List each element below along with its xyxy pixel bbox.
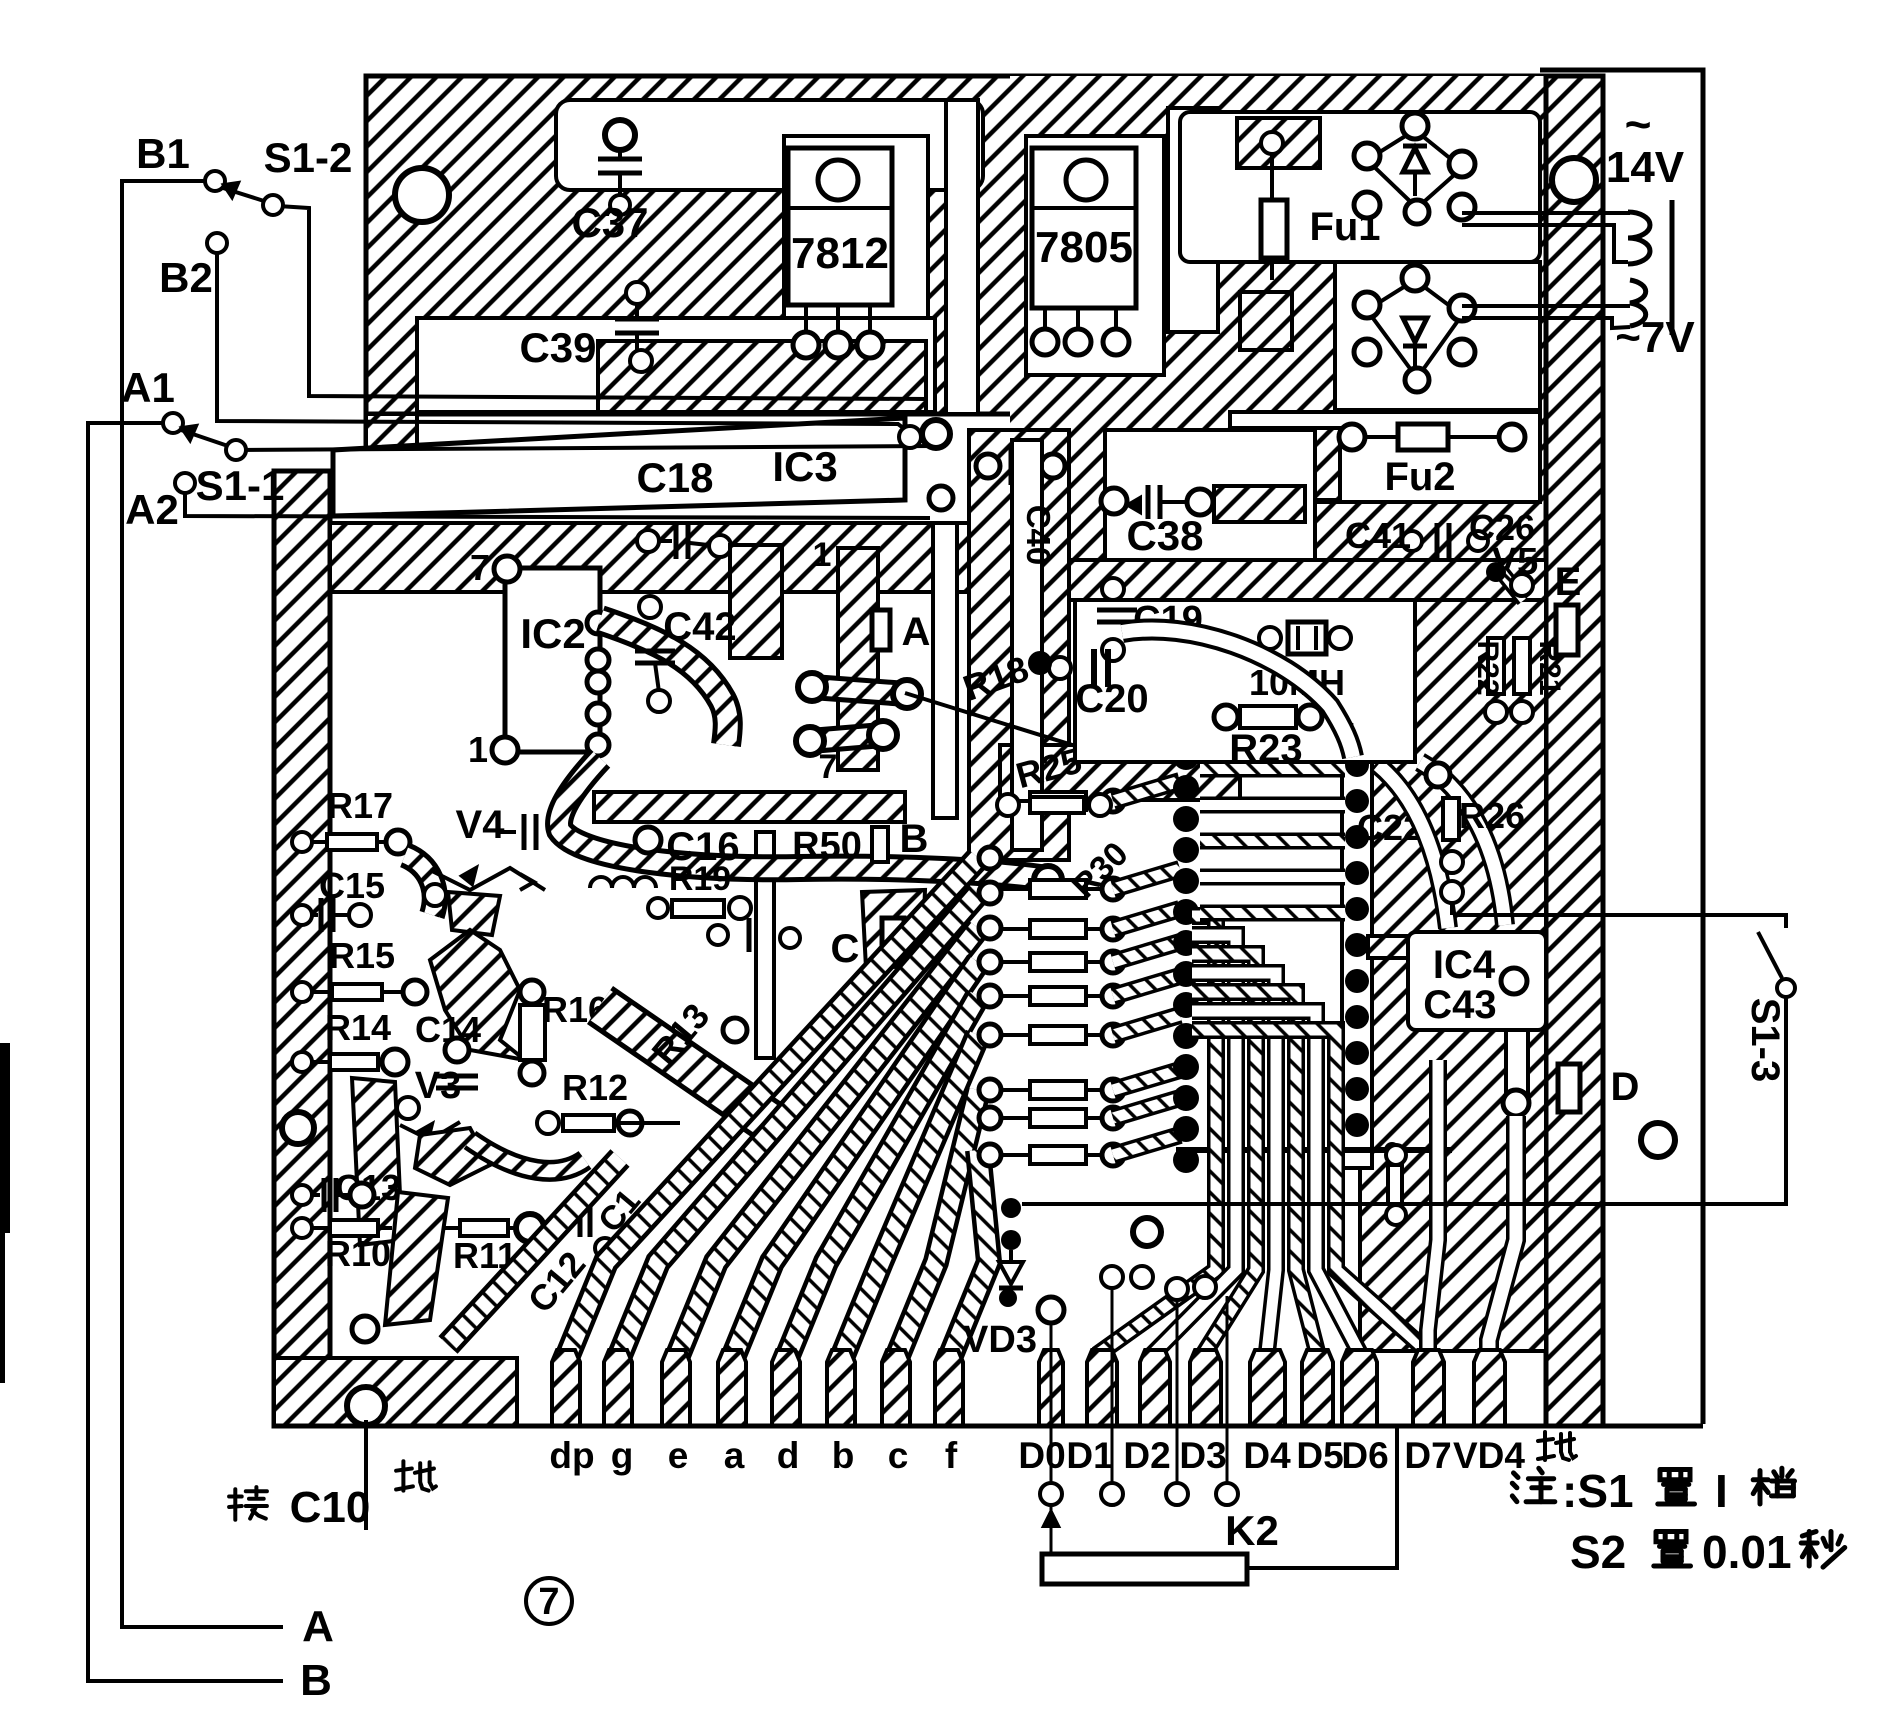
crystal 10MH [1288,622,1326,654]
wire S1-3 bottom [1022,997,1786,1204]
connector finger 6 [882,1350,910,1426]
scan artifact bar [0,1043,10,1233]
pad fan [979,882,1001,904]
label jie C10 [229,1487,267,1520]
capacitor C41 [1402,531,1422,551]
copper blob V3 [415,1128,490,1185]
svg-text:C43: C43 [1423,983,1496,1027]
connector finger 0 [552,1350,580,1426]
curved copper loop C16 [559,758,1040,878]
white channels right of C22 [1378,765,1448,928]
connector finger D [1474,1350,1505,1426]
wire A1 into board [88,421,155,425]
svg-text:dp: dp [549,1435,594,1476]
trace channel under R50 [756,832,774,1058]
copper strip left of A marker [838,548,878,770]
white region C19/C20 [1075,600,1415,762]
white region Fu2 [1230,412,1540,502]
svg-text:b: b [832,1435,855,1476]
trace channel C38 white region [1105,430,1315,560]
svg-text:B: B [900,817,929,861]
pad slot D [1558,1064,1580,1112]
svg-text:IC3: IC3 [772,443,837,490]
IC2 pad [587,734,609,756]
svg-text:C10: C10 [290,1483,371,1532]
switch S1-2 [205,171,225,191]
pad fan [979,847,1001,869]
copper pour center column [969,430,1069,860]
wire S1-3 top [1456,915,1786,928]
connector finger D [1342,1350,1377,1426]
svg-text:B1: B1 [136,130,190,177]
svg-text:f: f [945,1435,958,1476]
regulator region 7812 white [784,136,928,375]
svg-text:IC2: IC2 [520,610,585,657]
svg-text:D2: D2 [1123,1435,1170,1476]
svg-text:D7: D7 [1404,1435,1451,1476]
diode VD3 [1001,1198,1021,1218]
svg-text:R15: R15 [329,935,395,976]
trace fan strip 2 [676,928,978,1360]
copper star blob [430,930,525,1060]
svg-text:C: C [831,927,860,971]
copper pour left border band [274,471,330,1426]
svg-text:D3: D3 [1179,1435,1226,1476]
capacitor C37 [605,120,635,150]
connector finger D [1190,1350,1221,1426]
svg-text:A: A [902,610,931,654]
pad pair upper right of IC2 [812,687,907,694]
resistor R10 [292,1218,312,1238]
copper blob below V3 [385,1192,448,1325]
svg-text:C38: C38 [1126,512,1203,559]
copper blob C15 arc [405,855,435,915]
svg-text:D0: D0 [1018,1435,1065,1476]
svg-text:~7V: ~7V [1615,313,1695,362]
capacitor C16 symbol [500,830,516,834]
copper island left of bridge 2 [1240,292,1292,350]
svg-text:R17: R17 [327,785,393,826]
switch K2 slider [1050,1505,1053,1554]
svg-text:S1-2: S1-2 [264,134,353,181]
svg-text:g: g [611,1435,634,1476]
resistor R23 [1240,706,1296,728]
IC3 trace strip [333,418,905,516]
connector finger D [1087,1350,1117,1426]
copper band under IC2 [594,792,905,822]
pad fan [979,951,1001,973]
svg-text:C18: C18 [636,454,713,501]
pad 7812 pin1 [793,332,819,358]
trace channel C37 [556,100,983,190]
copper strip right of C38 [1214,486,1305,522]
svg-text:C40: C40 [1020,505,1057,566]
svg-text:R14: R14 [325,1007,391,1048]
figure number 7 [526,1578,572,1624]
bridge rectifier VD1 diamond [1367,130,1462,208]
connector finger D [1140,1350,1170,1426]
diode symbol in bridge 2 [1403,318,1427,342]
pad pair lower right of IC2 [810,735,883,741]
svg-text:V4: V4 [456,803,506,847]
trace to pad below IC4 [1506,1030,1528,1095]
IC2 pad [587,612,609,634]
connector finger 3 [718,1350,746,1426]
PCB board outline [274,76,1603,1426]
pad K2 [1166,1483,1188,1505]
connector finger 7 [935,1350,963,1426]
copper pour left column stub [366,414,417,471]
copper strip right of C42 [730,545,782,658]
copper band R13 [600,1005,770,1122]
copper blob V4 [448,892,500,935]
capacitor C18 symbol [637,530,659,552]
white region bridge rectifier 2 [1335,262,1540,410]
trace channel right of 7805 [1168,108,1218,332]
svg-text:C39: C39 [519,324,596,371]
copper blob C marker [862,890,925,968]
pad fan [979,985,1001,1007]
IC2 pad pin1 [492,737,518,763]
connector finger D [1250,1350,1285,1426]
trace fan strip 7 [949,1150,989,1360]
note S1 [1512,1468,1555,1501]
svg-text:R26: R26 [1459,795,1525,836]
svg-text:R19: R19 [669,860,731,898]
svg-text:0.01: 0.01 [1702,1526,1792,1578]
svg-text:C15: C15 [319,865,385,906]
wire across [1176,1147,1452,1153]
svg-text:e: e [668,1435,689,1476]
svg-text:D6: D6 [1341,1435,1388,1476]
svg-text:R10: R10 [325,1233,391,1274]
resistor row bodies center [1001,799,1030,803]
pad IC1 outer [1102,1079,1124,1101]
svg-text:c: c [888,1435,909,1476]
capacitor C19 [1102,578,1124,600]
copper pour right border band [1546,76,1603,1426]
white region Fu1 / bridge rectifier 1 [1180,112,1540,262]
mounting hole right [1641,1123,1675,1157]
label ground left [396,1461,436,1490]
capacitor C42 [639,596,661,618]
copper pour band below IC3 [330,523,1005,592]
svg-text:1: 1 [468,729,488,770]
pad IC1 outer [1102,985,1124,1007]
pad node top-center [922,420,950,448]
capacitor C38 [1101,488,1127,514]
mounting hole top-left [395,168,449,222]
resistor R21 R22 [1488,638,1504,694]
IC2 pad [587,649,609,671]
copper pour mid horizontal band [1069,560,1546,600]
pad 7805 pin2 [1065,329,1091,355]
connector finger D [1039,1350,1063,1426]
board bottom edge [274,1424,1703,1429]
svg-text:A: A [302,1602,334,1651]
resistor R14 [292,1052,312,1072]
IC2 pad [587,703,609,725]
copper pour top-right block [1010,76,1546,560]
svg-text:14V: 14V [1606,143,1685,192]
svg-text:K2: K2 [1225,1507,1279,1554]
pad ground bottom-left [352,1316,378,1342]
connector finger 2 [662,1350,690,1426]
resistor R11 [422,1218,442,1238]
mounting hole top-right [1552,158,1596,202]
svg-text:R12: R12 [562,1067,628,1108]
pad fan [979,917,1001,939]
connector finger 5 [827,1350,855,1426]
svg-text:IC4: IC4 [1433,943,1496,987]
pad K2 [1216,1483,1238,1505]
transformer secondary coil 14V [1462,213,1630,262]
pad 7812 pin2 [825,332,851,358]
pad IC1 outer [1102,1107,1124,1129]
wire B1 into board [278,206,928,399]
svg-text:A2: A2 [125,486,179,533]
connector finger 4 [772,1350,800,1426]
trace fan strip 1 [618,893,978,1360]
trace channel C22 [1342,752,1372,1168]
pad IC1 outer [1102,878,1124,900]
resistor R17 [292,832,312,852]
regulator region 7805 white [1026,136,1164,375]
svg-text:D5: D5 [1296,1435,1343,1476]
pad fan [979,1024,1001,1046]
svg-text:C20: C20 [1075,677,1148,721]
pad fan [979,1107,1001,1129]
resistor R50 [872,827,888,862]
IC4 white region [1408,932,1546,1030]
svg-text:B2: B2 [159,254,213,301]
pad 7805 pin3 [1103,329,1129,355]
fuse Fu1 [1261,132,1283,154]
curved copper trace from IC2 [600,620,728,745]
inductor L [590,877,656,888]
fuse Fu2 [1339,424,1365,450]
trace channel vertical top-center [946,100,978,414]
IC2 pad pin7 [494,556,520,582]
svg-text:S1-3: S1-3 [1743,998,1787,1083]
pads bottom center [1038,1297,1064,1323]
pad IC1 outer [1102,1024,1124,1046]
pad IC1 outer [1102,790,1124,812]
transformer secondary coil 7V [1630,280,1646,326]
svg-text:C37: C37 [571,199,648,246]
copper island above Fu1 [1237,118,1320,168]
svg-text:A1: A1 [121,364,175,411]
regulator 7805 [1032,148,1136,308]
pad IC1 outer [1102,918,1124,940]
trace channel center vertical white [1012,440,1042,850]
svg-text:V3: V3 [415,1065,461,1107]
svg-text:VD3: VD3 [963,1319,1037,1361]
IC2 pad [587,671,609,693]
svg-text:VD4: VD4 [1453,1435,1525,1476]
svg-text:I: I [1715,1465,1728,1517]
resistor R15 [292,982,312,1002]
horizontal trace strips between pad columns [1200,761,1345,778]
pad IC1 outer [1102,1144,1124,1166]
svg-text:C41: C41 [1345,515,1411,556]
wavy trace [1122,629,1353,757]
wire A1 right [236,446,935,450]
svg-text:S2: S2 [1570,1526,1626,1578]
pad fan [979,1079,1001,1101]
trace fan strip 6 [896,1090,978,1360]
wire to C10 [364,1420,368,1530]
capacitor C40 across strip end [976,454,1000,478]
regulator 7812 [788,148,892,305]
copper vertical strip left [352,1078,402,1245]
pad 7812 pin3 [857,332,883,358]
svg-text:7: 7 [470,547,490,588]
pad K2 [1101,1483,1123,1505]
svg-text:S1-1: S1-1 [196,462,285,509]
pad IC1 outer [1102,951,1124,973]
nested trace channels [1101,916,1216,1360]
copper pour bottom-left corner band [274,1358,517,1426]
label ground right [1538,1432,1576,1460]
svg-text:R50: R50 [792,825,862,867]
copper pour right-center region [1360,600,1546,1351]
capacitor near C [708,925,728,945]
bridge rectifier VD2 diamond [1367,280,1462,378]
svg-text:7812: 7812 [791,229,889,278]
svg-text:7: 7 [819,748,838,786]
wire R18 [905,693,1111,757]
switch S1-3 lever [1758,932,1782,978]
svg-text:R22: R22 [1471,640,1504,695]
connector finger D [1302,1350,1333,1426]
svg-text:7805: 7805 [1035,223,1133,272]
trace fan strip 0 [566,858,978,1360]
connector finger D [1413,1350,1444,1426]
resistor below C22 [1388,1165,1402,1204]
capacitor C39 [626,282,648,304]
wire B1 left vertical [122,181,283,1627]
wire D6 to K2 [1247,1426,1397,1568]
pad B2 wire [899,426,921,448]
copper pour top-left block [366,76,1090,414]
pad fan [979,1144,1001,1166]
trace fan strip 4 [786,996,978,1360]
trace channel C39 [417,318,935,412]
trace channel B vertical [933,523,957,818]
copper strip right of C22 top [1368,936,1460,958]
trace fan strip 3 [732,962,978,1360]
marker slot A [872,610,890,650]
svg-text:1: 1 [813,536,832,574]
svg-text::S1: :S1 [1562,1465,1634,1517]
svg-text:D4: D4 [1243,1435,1291,1476]
copper strip inside C39 channel [598,341,926,412]
pad node [929,486,953,510]
wire outer frame right [1540,70,1703,1424]
connector finger 1 [604,1350,632,1426]
svg-text:D1: D1 [1066,1435,1113,1476]
svg-text:7: 7 [538,1581,559,1623]
svg-text:E: E [1555,560,1582,604]
svg-text:d: d [777,1435,800,1476]
svg-text:Fu2: Fu2 [1384,455,1455,499]
IC2 outline [505,568,600,752]
wire A2 into board [185,493,930,518]
pad K2 [1040,1483,1062,1505]
trace fan strip 5 [841,1035,978,1360]
wire A1 left vertical [88,423,283,1681]
switch K2 wires [1050,1323,1053,1483]
svg-text:B: B [300,1656,332,1705]
pad 7805 pin1 [1032,329,1058,355]
trace fan strip extra C12 [448,1158,620,1345]
trace channel D7 [1428,1060,1438,1420]
pad slot E [1556,605,1578,655]
wire B2 into board [217,253,906,430]
IC1 pads left column [1173,744,1199,770]
mounting hole bottom-left [347,1387,385,1425]
capacitor C1 pad [595,1238,615,1258]
transformer core bar [1670,200,1675,335]
trace channel VD4 [1489,1116,1516,1420]
copper pour around R23/R25 [1000,745,1240,800]
IC1 pad stubs [1113,781,1180,801]
svg-text:a: a [724,1435,745,1476]
copper island in Fu2 region [1232,428,1340,500]
svg-text:C42: C42 [663,605,736,649]
svg-text:D: D [1611,1065,1640,1109]
diode symbol in bridge 1 [1403,148,1427,172]
mounting hole left [282,1112,314,1144]
